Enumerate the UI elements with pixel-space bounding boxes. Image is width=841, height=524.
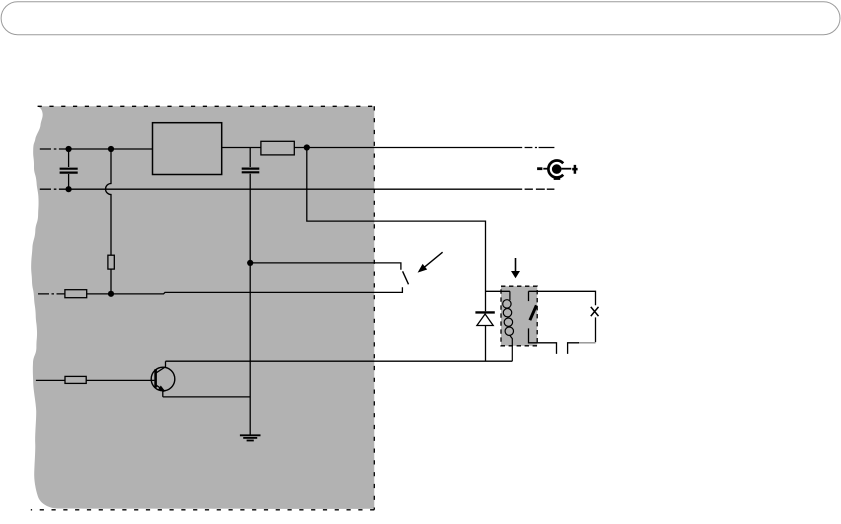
dashed module border right — [373, 106, 375, 510]
wire to switch upper contact — [250, 263, 401, 270]
center pin — [552, 164, 562, 174]
relay contact top lead — [528, 291, 530, 301]
resistor R2 (vertical) — [108, 255, 114, 269]
base lead — [36, 379, 154, 381]
capacitor C1 — [60, 149, 78, 189]
resistor R1 (output) — [261, 141, 294, 155]
resistor R3 (sense) — [65, 290, 87, 298]
wire contact top to load — [529, 291, 596, 305]
relay contact bottom lead — [529, 328, 557, 354]
emitter lead — [156, 385, 164, 397]
wire sense line to switch lower contact — [38, 287, 402, 294]
wire node to diode top — [307, 148, 486, 312]
arrow pointing at switch — [418, 252, 443, 272]
wire C2 bottom to ground rail — [249, 174, 251, 436]
capacitor C2 — [242, 148, 260, 173]
resistor R4 (base) — [65, 376, 86, 383]
down arrow above relay — [511, 258, 520, 278]
wire U1 output (dash-dot tail at right) — [222, 147, 555, 149]
left lead — [543, 168, 549, 170]
node on V+ at x=111 — [108, 146, 114, 152]
wire resistor to sense node — [110, 269, 112, 294]
wire transistor collector to relay coil bottom — [166, 360, 513, 362]
torn gray paper region — [31, 106, 374, 509]
dashed module border bottom — [31, 509, 375, 511]
ground — [240, 435, 261, 440]
switch blade S1 — [403, 271, 409, 284]
plus — [572, 165, 577, 174]
regulator box U1 — [153, 123, 222, 175]
transistor Q1 — [36, 361, 175, 397]
wire diode node to coil top — [486, 290, 510, 292]
node sense/R2 junction — [108, 291, 114, 297]
relay coil — [503, 291, 514, 361]
node on V+ at C1 — [66, 146, 72, 152]
emitter arrow — [158, 386, 165, 392]
wire load to terminal hook — [595, 317, 597, 342]
relay K1 dashed box — [501, 286, 537, 346]
minus — [537, 167, 542, 170]
wire GND left (dash-dot lead-in) — [40, 188, 555, 190]
wire emitter to ground rail — [163, 396, 250, 398]
right lead — [562, 168, 572, 170]
load X — [591, 307, 599, 316]
DC connector polarity symbol — [537, 161, 578, 179]
collector lead — [156, 361, 165, 373]
banner pill — [1, 2, 840, 35]
wire from V+ node down with hop over GND wire — [106, 149, 112, 255]
wire V+ left (dash-dot lead-in) — [40, 148, 153, 150]
base bar — [154, 369, 157, 387]
node switch tap — [247, 260, 253, 266]
node on GND at C1 — [66, 186, 72, 192]
node after R1 — [304, 144, 310, 150]
relay contact blade — [530, 305, 537, 320]
dashed module border top — [38, 105, 375, 107]
ring bottom tab — [554, 178, 561, 180]
open ring — [548, 161, 563, 178]
diode D1 — [475, 312, 494, 361]
